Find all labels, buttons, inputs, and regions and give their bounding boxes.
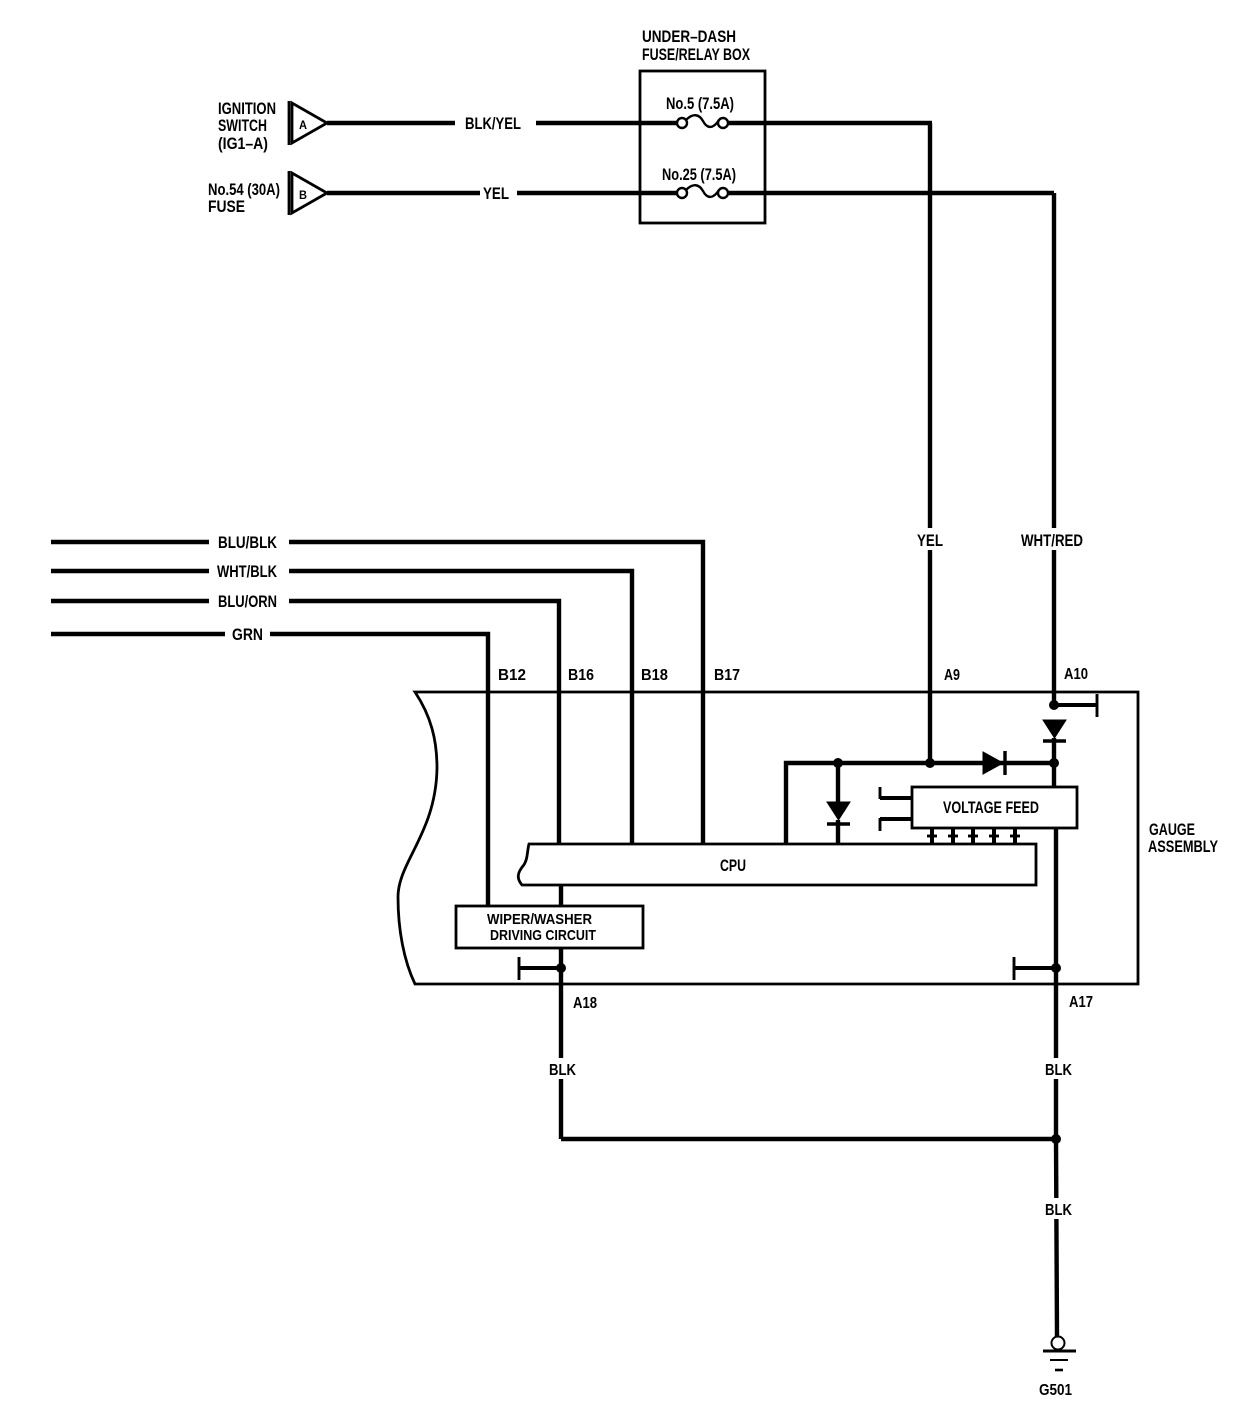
wire A18 to A17 bottom link bbox=[561, 1137, 1056, 1141]
svg-text:B18: B18 bbox=[641, 667, 668, 684]
svg-text:BLK: BLK bbox=[1045, 1202, 1072, 1219]
voltage feed pin stubs to CPU bbox=[927, 828, 1020, 844]
under-dash fuse/relay box outline bbox=[640, 71, 765, 223]
fuse F2 No.25 symbol bbox=[677, 185, 728, 198]
connector tick left of A17 junction bbox=[1014, 957, 1056, 980]
ground G501 symbol bbox=[1043, 1337, 1076, 1371]
node bus/diode junction dot bbox=[833, 758, 843, 768]
node bottom link junction dot bbox=[1051, 1134, 1061, 1144]
node A9/bus junction dot bbox=[925, 758, 935, 768]
wire from fuse No.5 to corner bbox=[728, 121, 932, 125]
label WHT/RED bbox=[1018, 528, 1086, 550]
node bus/A10 junction dot bbox=[1049, 758, 1059, 768]
svg-text:B17: B17 bbox=[714, 667, 740, 684]
connector A (ignition switch) bbox=[289, 101, 327, 145]
svg-text:A9: A9 bbox=[944, 667, 960, 684]
node A10 junction dot bbox=[1049, 700, 1059, 710]
wire WHT/BLK left stub bbox=[51, 569, 209, 573]
svg-text:CPU: CPU bbox=[720, 856, 746, 875]
label BLK (A18 wire) bbox=[546, 1058, 579, 1079]
svg-text:SWITCH: SWITCH bbox=[218, 116, 267, 135]
svg-text:WHT/BLK: WHT/BLK bbox=[217, 562, 278, 581]
wire A18 from CPU bottom bbox=[559, 885, 563, 906]
svg-text:A18: A18 bbox=[573, 995, 597, 1012]
diode D1 (A10 branch, pointing down) bbox=[1043, 720, 1066, 763]
svg-text:UNDER–DASH: UNDER–DASH bbox=[642, 27, 736, 46]
connector stub upper-left of voltage feed bbox=[880, 787, 912, 799]
connector stub lower-left of voltage feed bbox=[880, 818, 912, 831]
wire GRN to B12 bbox=[270, 634, 488, 906]
wire BLU/BLK to B17 bbox=[289, 542, 703, 844]
svg-text:WIPER/WASHER: WIPER/WASHER bbox=[487, 911, 592, 928]
svg-text:ASSEMBLY: ASSEMBLY bbox=[1148, 837, 1218, 856]
svg-text:VOLTAGE FEED: VOLTAGE FEED bbox=[943, 798, 1039, 817]
wire A17 below gauge bbox=[1054, 968, 1058, 1139]
diode D2 (to CPU, pointing down) bbox=[827, 763, 850, 844]
wire A18 below wiper box bbox=[559, 948, 563, 1139]
wire GRN left stub bbox=[51, 632, 225, 636]
svg-text:YEL: YEL bbox=[917, 531, 943, 550]
svg-text:BLK: BLK bbox=[1045, 1062, 1072, 1079]
svg-text:YEL: YEL bbox=[483, 184, 509, 203]
svg-text:A17: A17 bbox=[1069, 994, 1093, 1011]
wire WHT/BLK to B18 bbox=[289, 571, 632, 844]
label BLK (ground wire) bbox=[1042, 1198, 1075, 1219]
gauge assembly box outline bbox=[398, 692, 1138, 984]
node A18 junction dot bbox=[556, 963, 566, 973]
wire A17 to ground bbox=[1056, 1139, 1057, 1337]
svg-text:A: A bbox=[299, 118, 307, 132]
label No.54 (30A) FUSE bbox=[208, 180, 280, 216]
svg-text:B: B bbox=[299, 188, 307, 202]
CPU box outline bbox=[518, 844, 1036, 885]
wire A17 from voltage feed down bbox=[1054, 828, 1058, 968]
svg-text:BLK/YEL: BLK/YEL bbox=[465, 114, 521, 133]
label YEL (vertical wire) bbox=[914, 528, 945, 550]
svg-text:BLU/BLK: BLU/BLK bbox=[218, 533, 278, 552]
svg-text:BLU/ORN: BLU/ORN bbox=[218, 592, 277, 611]
svg-text:No.5 (7.5A): No.5 (7.5A) bbox=[666, 94, 734, 113]
connector tick left of A18 junction bbox=[519, 957, 561, 980]
wire BLU/BLK left stub bbox=[51, 540, 209, 544]
svg-text:WHT/RED: WHT/RED bbox=[1021, 531, 1083, 550]
wire BLU/ORN left stub bbox=[51, 599, 209, 603]
svg-text:(IG1–A): (IG1–A) bbox=[218, 134, 268, 153]
label BLK (A17 wire) bbox=[1042, 1058, 1075, 1079]
wire BLK/YEL from connector A bbox=[327, 121, 455, 125]
diode D3 (bus, pointing right) bbox=[983, 751, 1005, 775]
svg-text:G501: G501 bbox=[1039, 1382, 1072, 1399]
wire BLU/ORN to B16 bbox=[289, 601, 559, 844]
svg-text:DRIVING CIRCUIT: DRIVING CIRCUIT bbox=[490, 927, 596, 944]
label GAUGE ASSEMBLY bbox=[1148, 820, 1218, 856]
internal bus wire bbox=[786, 763, 1054, 844]
svg-text:A10: A10 bbox=[1064, 666, 1088, 683]
wire WHT/RED vertical (A10 feed) bbox=[1052, 193, 1056, 705]
svg-text:FUSE: FUSE bbox=[208, 197, 245, 216]
wire YEL to fuse box bbox=[517, 191, 678, 195]
wire BLK/YEL to fuse box bbox=[536, 121, 678, 125]
wire stub right of A10 junction bbox=[1054, 703, 1097, 707]
connector B (No.54 fuse) bbox=[289, 171, 327, 215]
svg-text:B16: B16 bbox=[568, 667, 594, 684]
voltage feed box bbox=[912, 787, 1077, 828]
svg-text:B12: B12 bbox=[498, 667, 526, 684]
label WIPER/WASHER DRIVING CIRCUIT bbox=[487, 911, 596, 944]
wiper/washer driving circuit box bbox=[456, 906, 643, 948]
wire YEL from connector B bbox=[327, 191, 480, 195]
connector tick at A10 stub end bbox=[1096, 694, 1099, 717]
label UNDER-DASH FUSE/RELAY BOX bbox=[642, 27, 750, 64]
svg-text:No.25 (7.5A): No.25 (7.5A) bbox=[662, 165, 736, 184]
label IGNITION SWITCH (IG1-A) bbox=[218, 99, 276, 153]
wire A10 junction to voltage feed box bbox=[1052, 763, 1056, 787]
svg-text:FUSE/RELAY BOX: FUSE/RELAY BOX bbox=[642, 45, 750, 64]
fuse F1 No.5 symbol bbox=[677, 115, 728, 128]
node A17 junction dot at gauge exit bbox=[1051, 963, 1061, 973]
svg-text:GRN: GRN bbox=[232, 625, 263, 644]
wire YEL vertical (A9 feed) bbox=[928, 123, 932, 763]
wire from fuse No.25 to corner bbox=[728, 191, 1054, 195]
svg-text:BLK: BLK bbox=[549, 1062, 576, 1079]
